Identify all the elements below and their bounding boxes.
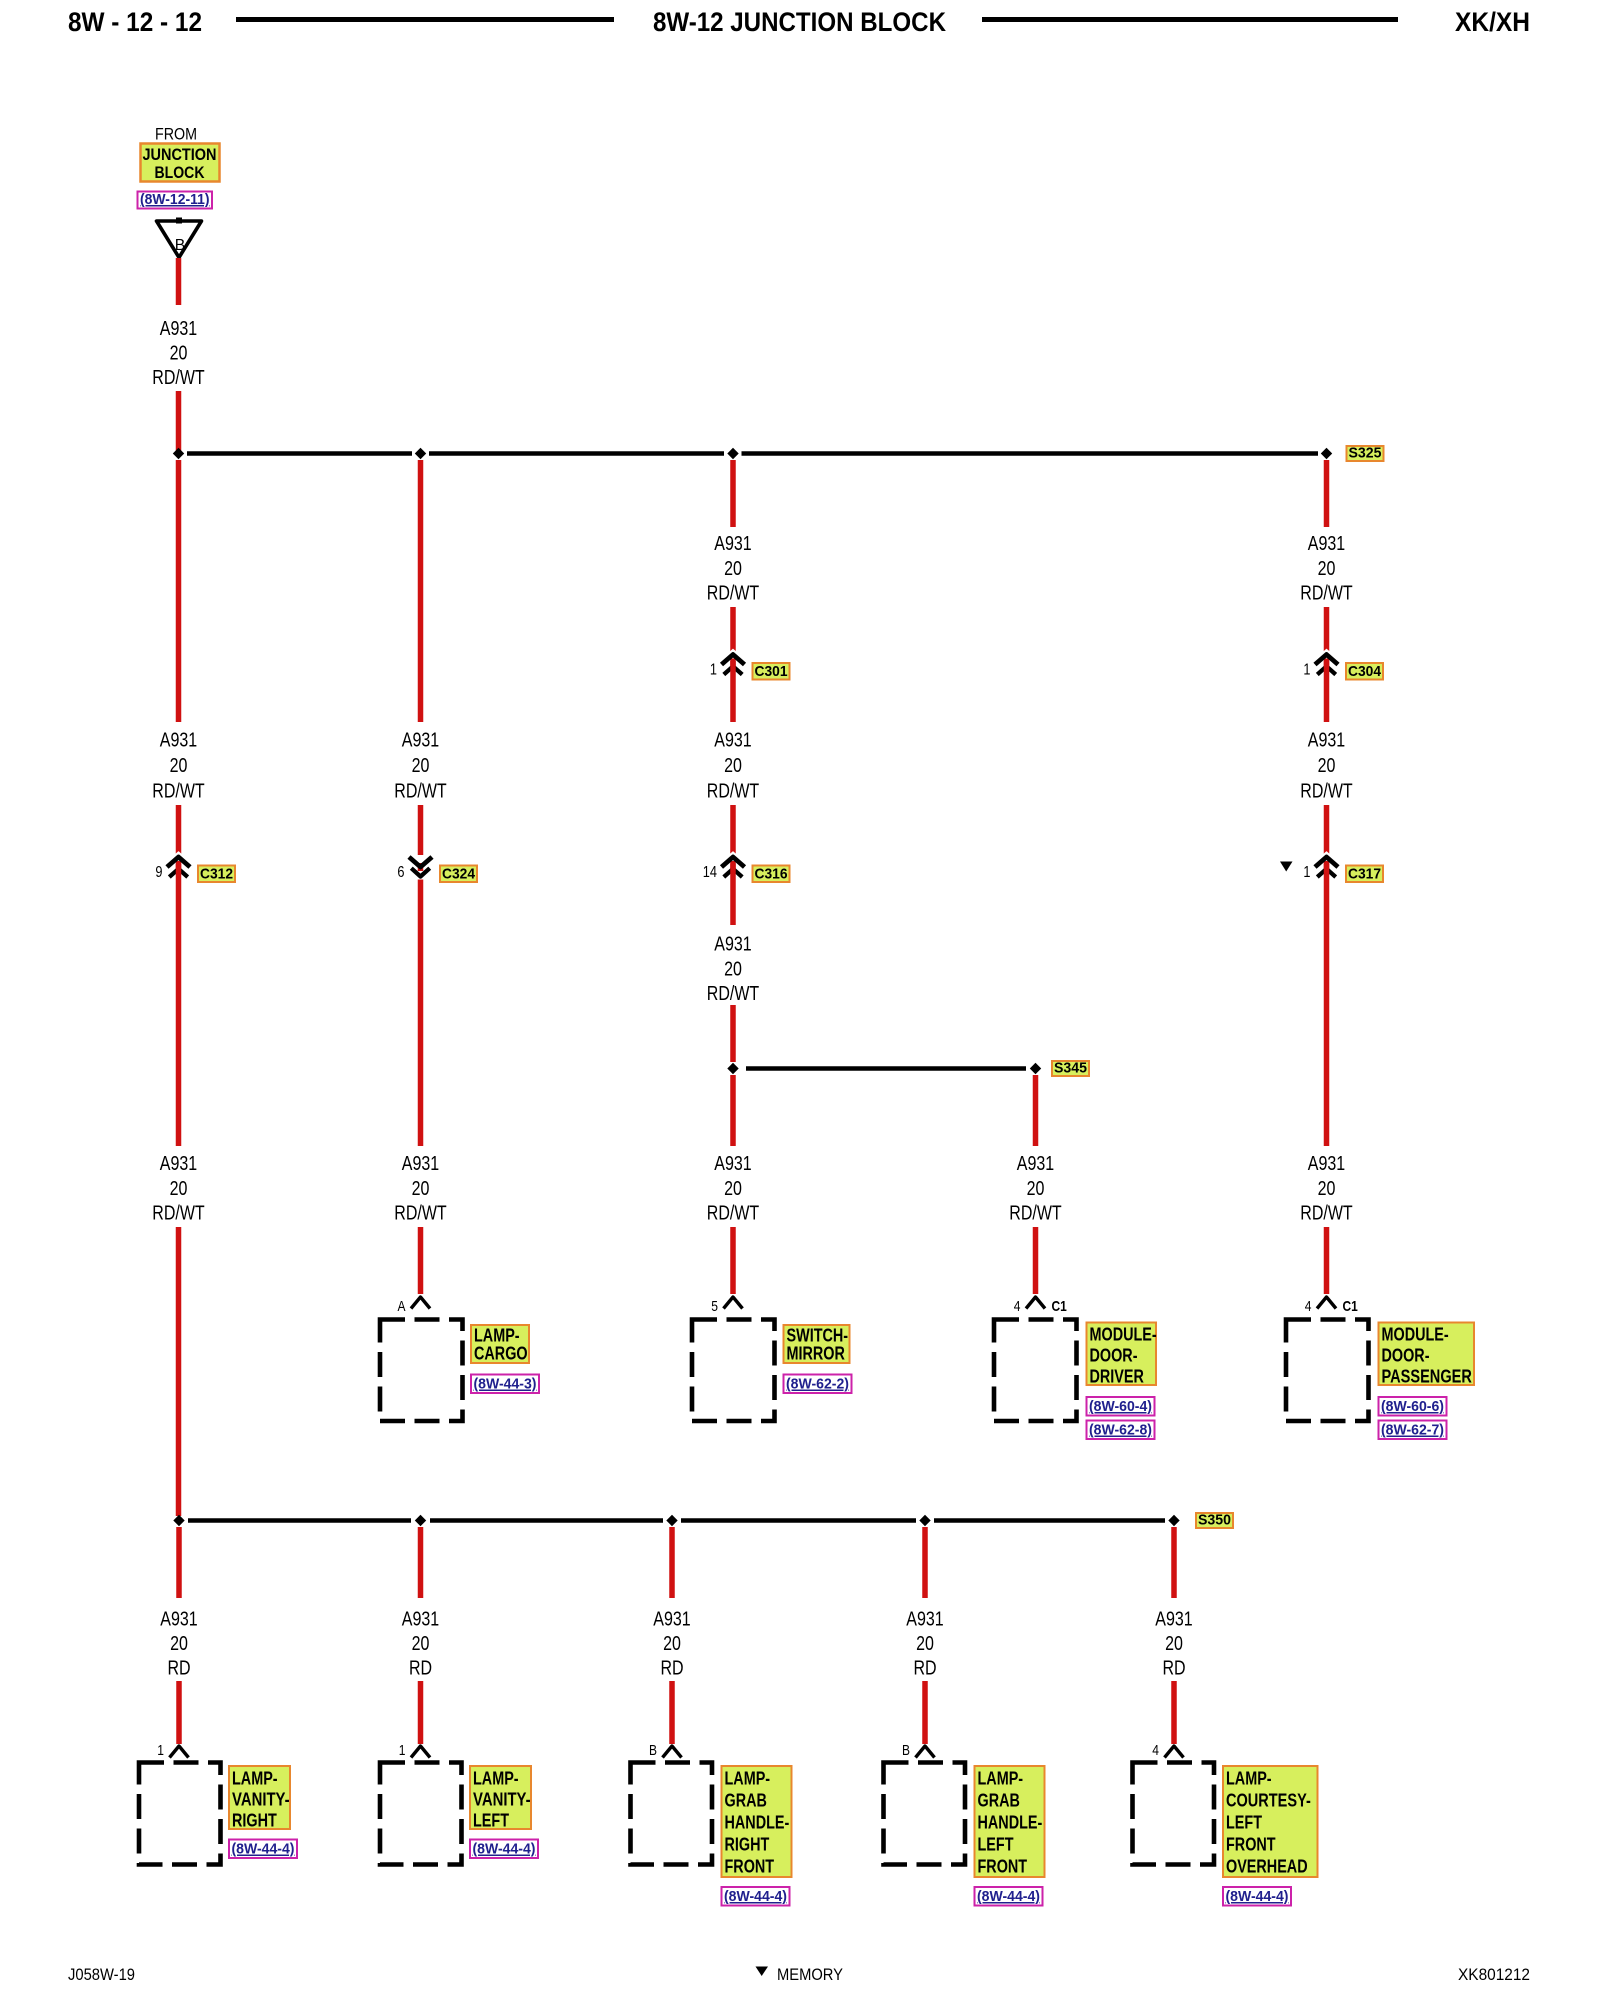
component LAMP-GRAB-HANDLE-LEFT-FRONT box — [884, 1763, 966, 1865]
svg-text:RD/WT: RD/WT — [152, 781, 204, 803]
splice label S345 — [1052, 1061, 1089, 1076]
svg-text:(8W-44-3): (8W-44-3) — [474, 1376, 537, 1393]
link 8W-60-6 — [1379, 1397, 1447, 1416]
connector label C301 — [753, 663, 790, 680]
component LAMP-CARGO box — [380, 1320, 463, 1422]
svg-text:A931: A931 — [1308, 1153, 1345, 1175]
wire A931 bottom col 2 below S350 — [418, 1527, 424, 1598]
connector label C324 — [440, 866, 477, 883]
svg-text:20: 20 — [1318, 1178, 1336, 1200]
component LAMP-GRAB-HANDLE-RIGHT-FRONT box — [631, 1763, 713, 1865]
splice label S325 — [1347, 446, 1384, 461]
svg-text:20: 20 — [412, 755, 430, 777]
component label MODULE-DOOR-DRIVER — [1087, 1323, 1157, 1386]
svg-text:S350: S350 — [1198, 1512, 1231, 1529]
svg-text:DOOR-: DOOR- — [1382, 1346, 1430, 1366]
svg-text:1: 1 — [1303, 864, 1310, 881]
memory marker triangle at C317 — [1280, 862, 1293, 872]
link 8W-44-4 of LAMP-GRAB-HANDLE-LEFT-FRONT — [975, 1887, 1043, 1906]
svg-text:(8W-44-4): (8W-44-4) — [724, 1888, 787, 1905]
wire A931 col B to C324 — [418, 805, 424, 855]
component SWITCH-MIRROR box — [692, 1320, 775, 1422]
svg-text:FRONT: FRONT — [1226, 1835, 1276, 1855]
svg-text:A931: A931 — [1308, 533, 1345, 555]
svg-text:A931: A931 — [402, 1153, 439, 1175]
junction diamond S325 col B — [415, 448, 426, 459]
svg-text:CARGO: CARGO — [474, 1344, 528, 1364]
svg-text:HANDLE-: HANDLE- — [725, 1813, 790, 1833]
svg-text:LEFT: LEFT — [978, 1835, 1014, 1855]
svg-text:DOOR-: DOOR- — [1090, 1346, 1138, 1366]
link 8W-62-2 — [784, 1375, 852, 1394]
wire A931 col E to MODULE-DOOR-PASSENGER — [1324, 1227, 1330, 1294]
component label MODULE-DOOR-PASSENGER — [1379, 1323, 1475, 1386]
component label SWITCH-MIRROR — [784, 1325, 850, 1363]
svg-text:RD/WT: RD/WT — [707, 781, 759, 803]
svg-text:HANDLE-: HANDLE- — [978, 1813, 1043, 1833]
link 8W-12-11 — [138, 192, 213, 209]
svg-text:20: 20 — [170, 1633, 188, 1655]
label JUNCTION BLOCK (highlighted) — [141, 144, 220, 182]
svg-text:8W-12 JUNCTION BLOCK: 8W-12 JUNCTION BLOCK — [653, 7, 946, 37]
wire A931 col C to S345 — [730, 1005, 736, 1062]
svg-text:MODULE-: MODULE- — [1382, 1325, 1449, 1345]
splice S345 bus — [746, 1066, 1026, 1071]
svg-text:RD: RD — [660, 1658, 683, 1680]
svg-text:RD/WT: RD/WT — [152, 367, 204, 389]
svg-text:8W - 12 - 12: 8W - 12 - 12 — [68, 7, 202, 37]
svg-text:LEFT: LEFT — [473, 1811, 509, 1831]
svg-text:LAMP-: LAMP- — [232, 1769, 278, 1789]
component label LAMP-COURTESY-LEFT-FRONT-OVERHEAD — [1223, 1766, 1318, 1877]
wire A931 bottom col 4 to lamp — [922, 1681, 928, 1744]
svg-text:A931: A931 — [1017, 1153, 1054, 1175]
svg-text:A931: A931 — [1308, 730, 1345, 752]
svg-text:RD: RD — [167, 1658, 190, 1680]
svg-text:B: B — [175, 237, 186, 254]
svg-text:A931: A931 — [160, 318, 197, 340]
junction diamond S345 col D — [1030, 1063, 1041, 1074]
svg-text:A931: A931 — [714, 730, 751, 752]
svg-text:J058W-19: J058W-19 — [68, 1965, 135, 1984]
svg-text:1: 1 — [710, 662, 717, 679]
svg-text:JUNCTION: JUNCTION — [143, 145, 217, 164]
svg-text:S345: S345 — [1054, 1060, 1087, 1077]
component MODULE-DOOR-DRIVER box — [994, 1320, 1077, 1422]
svg-text:20: 20 — [663, 1633, 681, 1655]
link 8W-44-4 of LAMP-VANITY-LEFT — [470, 1840, 538, 1859]
svg-text:LEFT: LEFT — [1226, 1813, 1262, 1833]
svg-text:20: 20 — [724, 755, 742, 777]
header rule right — [982, 17, 1398, 22]
splice label S350 — [1196, 1513, 1233, 1528]
svg-text:(8W-44-4): (8W-44-4) — [1226, 1888, 1289, 1905]
svg-text:RD/WT: RD/WT — [707, 1203, 759, 1225]
junction diamond S345 col C — [727, 1063, 738, 1074]
component LAMP-VANITY-RIGHT box — [139, 1763, 221, 1865]
svg-text:20: 20 — [1165, 1633, 1183, 1655]
svg-text:SWITCH-: SWITCH- — [787, 1326, 849, 1346]
pin chevron LAMP-COURTESY-LEFT-FRONT-OVERHEAD — [1165, 1746, 1184, 1758]
wire A931 bottom col 3 to lamp — [669, 1681, 675, 1744]
svg-text:4: 4 — [1305, 1298, 1312, 1315]
svg-text:RD/WT: RD/WT — [707, 583, 759, 605]
wire A931 col C below S345 — [730, 1075, 736, 1146]
junction diamond S325 col C — [727, 448, 738, 459]
svg-text:A931: A931 — [653, 1609, 690, 1631]
svg-text:20: 20 — [170, 1178, 188, 1200]
splice S325 bus segment 1 — [187, 451, 412, 456]
wire A931 col D to MODULE-DOOR-DRIVER — [1033, 1227, 1039, 1294]
svg-text:OVERHEAD: OVERHEAD — [1226, 1857, 1308, 1877]
pin chevron LAMP-GRAB-HANDLE-RIGHT-FRONT — [663, 1746, 682, 1758]
wire A931 col D below S345 — [1033, 1075, 1039, 1146]
wire A931 col E below C304 — [1324, 661, 1330, 722]
svg-text:LAMP-: LAMP- — [1226, 1769, 1272, 1789]
svg-text:20: 20 — [916, 1633, 934, 1655]
wire A931 col E to C304 — [1324, 607, 1330, 654]
header rule left — [236, 17, 614, 22]
link 8W-44-3 — [471, 1375, 539, 1394]
svg-text:BLOCK: BLOCK — [155, 163, 206, 182]
svg-text:(8W-62-2): (8W-62-2) — [786, 1376, 849, 1393]
svg-text:RD/WT: RD/WT — [1300, 1203, 1352, 1225]
link 8W-44-4 of LAMP-GRAB-HANDLE-RIGHT-FRONT — [722, 1887, 790, 1906]
junction diamond S350 col 2 — [415, 1515, 426, 1526]
svg-text:A931: A931 — [1155, 1609, 1192, 1631]
svg-text:C301: C301 — [755, 663, 788, 680]
wire A931 bottom col 1 below S350 — [176, 1527, 182, 1598]
link 8W-62-8 — [1087, 1421, 1155, 1440]
svg-text:A931: A931 — [714, 1153, 751, 1175]
svg-text:RD/WT: RD/WT — [1009, 1203, 1061, 1225]
pin chevron MODULE-DOOR-PASSENGER — [1317, 1297, 1336, 1309]
junction diamond S325 col A — [173, 448, 184, 459]
svg-text:20: 20 — [724, 958, 742, 980]
connector label C312 — [198, 866, 235, 883]
svg-text:20: 20 — [170, 343, 188, 365]
junction diamond S350 col 4 — [919, 1515, 930, 1526]
svg-text:(8W-44-4): (8W-44-4) — [977, 1888, 1040, 1905]
junction diamond S350 col 3 — [666, 1515, 677, 1526]
svg-text:RD/WT: RD/WT — [152, 1203, 204, 1225]
svg-text:GRAB: GRAB — [978, 1791, 1020, 1811]
wire A931 col A to C312 — [176, 805, 182, 856]
component label LAMP-GRAB-HANDLE-LEFT-FRONT — [975, 1766, 1045, 1877]
svg-text:C304: C304 — [1348, 663, 1382, 680]
svg-text:RIGHT: RIGHT — [725, 1835, 770, 1855]
svg-text:A931: A931 — [714, 934, 751, 956]
svg-text:A931: A931 — [160, 730, 197, 752]
svg-text:(8W-44-4): (8W-44-4) — [232, 1841, 295, 1858]
wire A931 col A below C312 — [176, 864, 182, 1147]
svg-text:LAMP-: LAMP- — [725, 1769, 771, 1789]
svg-text:XK/XH: XK/XH — [1455, 7, 1530, 37]
svg-text:1: 1 — [157, 1742, 164, 1759]
svg-text:14: 14 — [703, 864, 717, 881]
svg-text:20: 20 — [412, 1178, 430, 1200]
connector C312 symbol — [167, 857, 190, 867]
svg-text:20: 20 — [724, 558, 742, 580]
connector label C316 — [753, 866, 790, 883]
svg-text:S325: S325 — [1349, 445, 1382, 462]
wire A931 col A long drop to S350 — [176, 1227, 182, 1516]
svg-text:VANITY-: VANITY- — [232, 1790, 290, 1810]
svg-text:9: 9 — [155, 864, 162, 881]
component label LAMP-VANITY-RIGHT — [229, 1766, 290, 1829]
link 8W-62-7 — [1379, 1421, 1447, 1440]
splice S325 bus segment 2 — [429, 451, 724, 456]
component MODULE-DOOR-PASSENGER box — [1286, 1320, 1369, 1422]
component label LAMP-VANITY-LEFT — [470, 1766, 531, 1829]
svg-text:RIGHT: RIGHT — [232, 1811, 277, 1831]
connector C316 symbol — [722, 857, 745, 867]
svg-text:C1: C1 — [1052, 1298, 1067, 1315]
component LAMP-COURTESY-LEFT-FRONT-OVERHEAD box — [1133, 1763, 1215, 1865]
svg-text:RD/WT: RD/WT — [707, 983, 759, 1005]
pin chevron LAMP-CARGO — [411, 1297, 430, 1309]
svg-text:FROM: FROM — [155, 125, 197, 144]
footer memory marker triangle — [756, 1967, 769, 1977]
svg-text:RD/WT: RD/WT — [1300, 781, 1352, 803]
connector C324 symbol — [409, 857, 432, 867]
svg-text:C312: C312 — [200, 866, 233, 883]
svg-text:5: 5 — [711, 1298, 718, 1315]
svg-text:C316: C316 — [755, 866, 788, 883]
svg-text:20: 20 — [1318, 558, 1336, 580]
svg-text:RD/WT: RD/WT — [1300, 583, 1352, 605]
svg-text:20: 20 — [1318, 755, 1336, 777]
splice S350 bus segment 2 — [430, 1518, 663, 1523]
svg-text:RD: RD — [913, 1658, 936, 1680]
wire A931 bottom col 3 below S350 — [669, 1527, 675, 1598]
connector C304 symbol — [1315, 655, 1338, 665]
svg-text:(8W-62-7): (8W-62-7) — [1381, 1422, 1444, 1439]
wire A931 col C below C301 — [730, 661, 736, 722]
svg-text:DRIVER: DRIVER — [1090, 1367, 1144, 1387]
svg-text:A931: A931 — [402, 730, 439, 752]
wire A931 col C to SWITCH-MIRROR — [730, 1227, 736, 1294]
splice S350 bus segment 4 — [934, 1518, 1165, 1523]
svg-text:B: B — [902, 1742, 910, 1759]
svg-text:1: 1 — [399, 1742, 406, 1759]
wire A931 col B to LAMP-CARGO — [418, 1227, 424, 1294]
svg-text:4: 4 — [1014, 1298, 1021, 1315]
wire A931 col A to splice S325 — [176, 391, 182, 451]
junction diamond S350 col 1 — [173, 1515, 184, 1526]
svg-text:C317: C317 — [1348, 866, 1381, 883]
wire A931 col A below S325 — [176, 460, 182, 722]
svg-text:A931: A931 — [402, 1609, 439, 1631]
component label LAMP-GRAB-HANDLE-RIGHT-FRONT — [722, 1766, 792, 1877]
wire A931 col C to C301 — [730, 607, 736, 654]
wire A931 col E below C317 — [1324, 864, 1330, 1147]
svg-text:20: 20 — [170, 755, 188, 777]
link 8W-44-4 of LAMP-VANITY-RIGHT — [229, 1840, 297, 1859]
svg-text:RD: RD — [409, 1658, 432, 1680]
svg-text:A931: A931 — [714, 533, 751, 555]
wire A931 bottom col 5 below S350 — [1171, 1527, 1177, 1598]
svg-text:LAMP-: LAMP- — [473, 1769, 519, 1789]
svg-text:(8W-60-4): (8W-60-4) — [1089, 1398, 1152, 1415]
wire A931 bottom col 4 below S350 — [922, 1527, 928, 1598]
wire A931 col C below S325 — [730, 460, 736, 527]
svg-text:FRONT: FRONT — [725, 1857, 775, 1877]
svg-text:LAMP-: LAMP- — [474, 1326, 520, 1346]
junction diamond S325 col E — [1321, 448, 1332, 459]
link 8W-44-4 of LAMP-COURTESY-LEFT-FRONT-OVERHEAD — [1223, 1887, 1291, 1906]
svg-text:COURTESY-: COURTESY- — [1226, 1791, 1311, 1811]
connector label C304 — [1346, 663, 1383, 680]
component label LAMP-CARGO — [471, 1325, 529, 1363]
wire A931 bottom col 1 to lamp — [176, 1681, 182, 1744]
svg-text:MIRROR: MIRROR — [787, 1344, 845, 1364]
svg-text:RD/WT: RD/WT — [394, 781, 446, 803]
wire A931 col C to C316 — [730, 805, 736, 856]
connector C317 symbol — [1315, 857, 1338, 867]
svg-text:MODULE-: MODULE- — [1090, 1325, 1157, 1345]
svg-text:6: 6 — [397, 864, 404, 881]
svg-text:20: 20 — [724, 1178, 742, 1200]
svg-text:A931: A931 — [906, 1609, 943, 1631]
svg-text:VANITY-: VANITY- — [473, 1790, 531, 1810]
svg-text:XK801212: XK801212 — [1458, 1965, 1530, 1984]
svg-text:(8W-44-4): (8W-44-4) — [473, 1841, 536, 1858]
svg-text:4: 4 — [1152, 1742, 1159, 1759]
pin chevron MODULE-DOOR-DRIVER — [1026, 1297, 1045, 1309]
wire A931 col B below C324 — [418, 880, 424, 1147]
svg-text:A931: A931 — [160, 1609, 197, 1631]
wire A931 col B below S325 — [418, 460, 424, 722]
pin chevron LAMP-VANITY-RIGHT — [170, 1746, 189, 1758]
svg-text:A931: A931 — [160, 1153, 197, 1175]
wire A931 from triangle B — [176, 258, 182, 305]
svg-text:20: 20 — [412, 1633, 430, 1655]
pin chevron LAMP-VANITY-LEFT — [411, 1746, 430, 1758]
connector C301 symbol — [722, 655, 745, 665]
pin chevron LAMP-GRAB-HANDLE-LEFT-FRONT — [916, 1746, 935, 1758]
wire A931 col E below S325 — [1324, 460, 1330, 527]
wire A931 col C below C316 — [730, 864, 736, 926]
splice S325 bus segment 3 — [742, 451, 1319, 456]
svg-text:RD/WT: RD/WT — [394, 1203, 446, 1225]
svg-text:A: A — [398, 1298, 406, 1315]
svg-text:C324: C324 — [442, 866, 476, 883]
svg-text:GRAB: GRAB — [725, 1791, 767, 1811]
link 8W-60-4 — [1087, 1397, 1155, 1416]
svg-text:MEMORY: MEMORY — [777, 1965, 843, 1984]
svg-text:20: 20 — [1027, 1178, 1045, 1200]
svg-text:RD: RD — [1162, 1658, 1185, 1680]
splice S350 bus segment 3 — [681, 1518, 916, 1523]
svg-text:(8W-62-8): (8W-62-8) — [1089, 1422, 1152, 1439]
svg-text:(8W-60-6): (8W-60-6) — [1381, 1398, 1444, 1415]
svg-text:1: 1 — [1303, 662, 1310, 679]
connector label C317 — [1346, 866, 1383, 883]
svg-text:FRONT: FRONT — [978, 1857, 1028, 1877]
junction diamond S350 col 5 — [1168, 1515, 1179, 1526]
svg-text:B: B — [649, 1742, 657, 1759]
wire A931 bottom col 2 to lamp — [418, 1681, 424, 1744]
svg-text:(8W-12-11): (8W-12-11) — [140, 191, 210, 208]
svg-text:C1: C1 — [1343, 1298, 1358, 1315]
wire A931 col E to C317 — [1324, 805, 1330, 856]
wire A931 bottom col 5 to lamp — [1171, 1681, 1177, 1744]
off-page connector triangle B — [157, 221, 202, 258]
splice S350 bus segment 1 — [188, 1518, 411, 1523]
pin chevron SWITCH-MIRROR — [724, 1297, 743, 1309]
svg-text:PASSENGER: PASSENGER — [1382, 1367, 1472, 1387]
svg-text:LAMP-: LAMP- — [978, 1769, 1024, 1789]
component LAMP-VANITY-LEFT box — [380, 1763, 462, 1865]
